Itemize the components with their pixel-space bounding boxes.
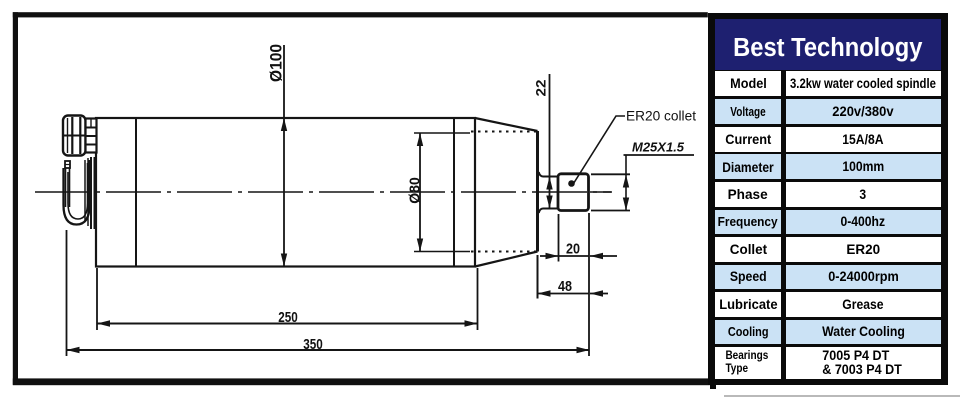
dotted bore line bottom — [471, 251, 536, 253]
svg-text:350: 350 — [303, 337, 323, 353]
svg-text:20: 20 — [566, 242, 580, 258]
fitting flange lines — [84, 160, 86, 222]
frame border bottom — [13, 378, 710, 385]
svg-text:Ø80: Ø80 — [406, 177, 423, 204]
dim 20 — [558, 214, 560, 262]
spec table — [708, 13, 948, 385]
end cap line — [135, 118, 137, 267]
connector rings — [86, 119, 97, 153]
header — [715, 19, 941, 70]
dotted bore line top — [471, 131, 536, 133]
collet nut — [558, 174, 589, 211]
front cap line — [453, 118, 455, 267]
dim 48 — [537, 255, 539, 299]
nose face — [536, 131, 539, 252]
leader ER20 — [568, 180, 575, 187]
water fitting outer U — [64, 160, 90, 225]
frame border top — [13, 12, 708, 17]
faint line below table — [724, 395, 960, 397]
dim 250 — [96, 268, 98, 330]
svg-text:M25X1.5: M25X1.5 — [632, 140, 685, 155]
dim 350 — [66, 230, 68, 356]
centerline — [35, 191, 612, 193]
dim O100 line — [283, 45, 285, 267]
spindle body — [96, 118, 475, 267]
water fitting nub — [65, 161, 70, 168]
taper bottom — [475, 252, 538, 267]
svg-text:48: 48 — [558, 279, 572, 295]
svg-text:ER20 collet: ER20 collet — [626, 108, 696, 124]
taper top — [475, 118, 538, 131]
table left border nub — [710, 385, 716, 389]
dim O80 — [414, 132, 470, 134]
connector cap — [63, 116, 86, 156]
shaft neck top — [539, 172, 558, 177]
svg-text:22: 22 — [533, 79, 549, 96]
M25 underline + connector — [624, 154, 695, 156]
svg-text:Ø100: Ø100 — [267, 44, 285, 82]
water fitting tube — [65, 168, 67, 207]
water fitting inner U — [68, 163, 88, 219]
shaft neck bottom — [539, 209, 558, 214]
dim 22 — [549, 74, 551, 209]
svg-text:250: 250 — [278, 310, 298, 326]
nut centerline — [590, 191, 611, 193]
frame border left — [13, 12, 18, 385]
